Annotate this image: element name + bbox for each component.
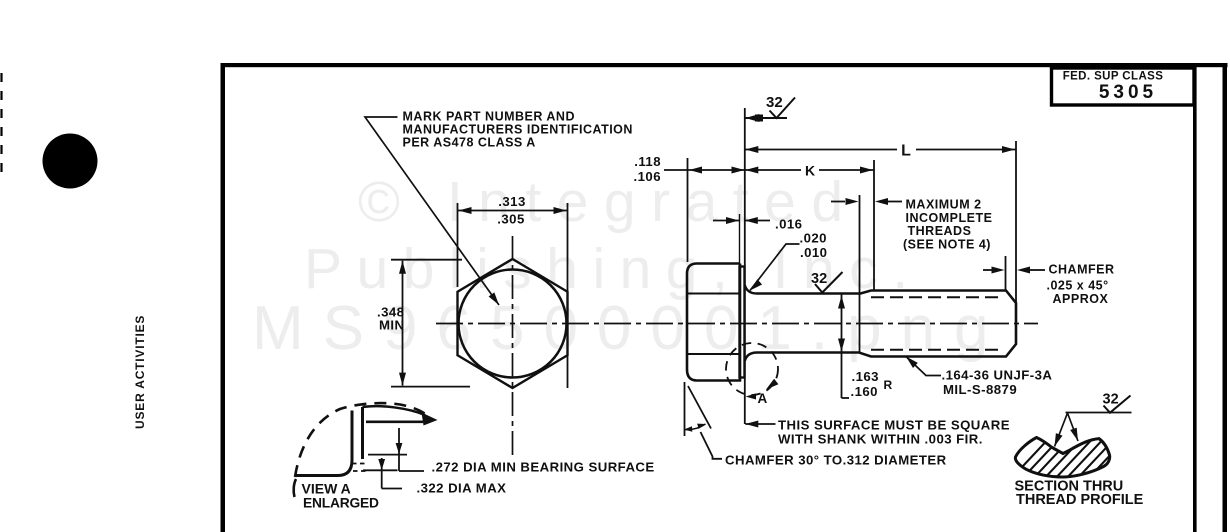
svg-text:.160: .160 — [851, 384, 878, 399]
svg-text:R: R — [884, 378, 893, 392]
ext line bearing face — [744, 108, 746, 424]
svg-text:MANUFACTURERS IDENTIFICATION: MANUFACTURERS IDENTIFICATION — [403, 123, 633, 137]
svg-text:MAXIMUM 2: MAXIMUM 2 — [906, 198, 982, 212]
dim .163/.160 R — [841, 295, 843, 399]
dia .322 marker — [363, 469, 398, 471]
dia .272 marker — [368, 454, 407, 456]
hex head chamfer circle — [459, 270, 567, 378]
svg-text:APPROX: APPROX — [1053, 292, 1109, 306]
note chamfer .025 x 45 — [983, 269, 992, 271]
leader mark part number — [365, 117, 499, 305]
svg-text:CHAMFER 30° TO.312 DIAMETER: CHAMFER 30° TO.312 DIAMETER — [725, 453, 947, 468]
svg-text:.272 DIA MIN BEARING SURFACE: .272 DIA MIN BEARING SURFACE — [432, 460, 655, 475]
svg-text:INCOMPLETE: INCOMPLETE — [906, 211, 993, 225]
svg-text:.305: .305 — [497, 212, 524, 227]
svg-text:.020: .020 — [800, 231, 827, 246]
svg-text:(SEE NOTE 4): (SEE NOTE 4) — [903, 237, 991, 251]
fillet bottom — [745, 353, 757, 362]
svg-text:.322 DIA MAX: .322 DIA MAX — [417, 481, 507, 496]
svg-text:L: L — [901, 143, 911, 160]
dim .313/.305 ext line left — [457, 203, 459, 287]
thread minor dia dashed top — [871, 296, 1003, 298]
view A enlarged — [294, 403, 655, 510]
ext line K right — [873, 160, 875, 291]
svg-text:CHAMFER: CHAMFER — [1049, 263, 1115, 277]
svg-text:PER AS478 CLASS A: PER AS478 CLASS A — [403, 136, 536, 150]
svg-text:.016: .016 — [775, 217, 802, 232]
svg-text:MIN: MIN — [379, 318, 405, 333]
svg-text:FED. SUP CLASS: FED. SUP CLASS — [1063, 71, 1164, 83]
frame right outer border — [1223, 63, 1228, 532]
dim .348 line — [402, 261, 404, 386]
head facet line lower — [687, 353, 740, 355]
hex view vertical centerline — [512, 236, 514, 458]
svg-text:.025 x 45°: .025 x 45° — [1047, 279, 1109, 293]
thread runout vertical — [859, 195, 861, 353]
svg-text:5305: 5305 — [1099, 82, 1157, 103]
svg-text:MARK PART NUMBER AND: MARK PART NUMBER AND — [403, 110, 576, 124]
left edge dashes — [0, 73, 2, 175]
frame top border — [221, 63, 1228, 67]
thread minor dia dashed bottom — [871, 349, 1003, 351]
svg-text:.163: .163 — [852, 369, 879, 384]
hex head front view hexagon — [458, 259, 568, 388]
svg-text:.106: .106 — [634, 169, 661, 184]
svg-text:MIL-S-8879: MIL-S-8879 — [943, 382, 1017, 397]
svg-text:THIS SURFACE MUST BE SQUARE: THIS SURFACE MUST BE SQUARE — [778, 418, 1010, 433]
note this surface must be square — [745, 423, 775, 425]
svg-text:MS96500001.png: MS96500001.png — [252, 294, 1008, 363]
punch hole dot — [43, 134, 98, 189]
svg-text:WITH SHANK WITHIN .003 FIR.: WITH SHANK WITHIN .003 FIR. — [778, 432, 983, 447]
ext line L right — [1015, 141, 1017, 302]
svg-text:Publishing, Inc.: Publishing, Inc. — [304, 237, 923, 301]
shank top line — [757, 292, 860, 295]
note maximum 2 incomplete threads — [831, 201, 845, 203]
svg-text:USER ACTIVITIES: USER ACTIVITIES — [133, 315, 147, 429]
svg-text:A: A — [758, 391, 768, 406]
washer flange — [740, 267, 745, 378]
svg-text:ENLARGED: ENLARGED — [303, 496, 379, 511]
frame left border — [221, 63, 226, 532]
svg-text:.164-36 UNJF-3A: .164-36 UNJF-3A — [942, 368, 1053, 383]
thread outline — [860, 291, 1017, 357]
svg-text:32: 32 — [766, 94, 783, 111]
dim L — [745, 149, 897, 151]
shank bottom line — [757, 351, 860, 354]
ext lines washer face — [739, 214, 741, 264]
fed sup class box — [1052, 68, 1195, 105]
svg-text:K: K — [805, 163, 815, 179]
svg-text:VIEW A: VIEW A — [302, 481, 351, 497]
dim .348 ext line bottom — [391, 386, 470, 388]
ext line chamfer start — [1005, 256, 1007, 290]
svg-text:.313: .313 — [498, 194, 525, 209]
ext line head left — [687, 158, 689, 262]
dim .313/.305 line — [458, 210, 568, 212]
dim .348 ext line top — [391, 259, 462, 261]
svg-text:32: 32 — [811, 271, 827, 287]
note chamfer 30 — [684, 382, 686, 436]
detail circle A — [726, 343, 778, 395]
dim .313/.305 ext line right — [567, 203, 569, 388]
svg-text:THREAD PROFILE: THREAD PROFILE — [1016, 492, 1144, 508]
fillet top — [745, 285, 757, 294]
bolt head side view outline — [687, 264, 740, 381]
svg-text:.010: .010 — [800, 245, 827, 260]
dim .016 — [713, 220, 739, 222]
svg-text:THREADS: THREADS — [908, 224, 972, 238]
head facet line upper — [687, 293, 740, 295]
dim K — [745, 169, 801, 171]
main centerline horizontal — [436, 323, 1038, 325]
svg-text:32: 32 — [1103, 392, 1119, 408]
frame right inner line — [1193, 66, 1197, 532]
section thru thread profile — [1008, 392, 1144, 509]
svg-text:.118: .118 — [634, 154, 661, 169]
